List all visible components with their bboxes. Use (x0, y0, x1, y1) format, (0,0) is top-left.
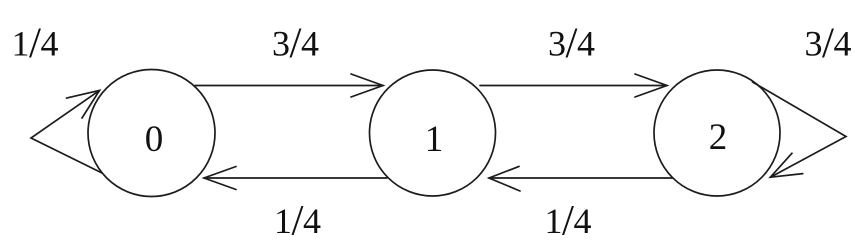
svg-text:1/4: 1/4 (274, 198, 321, 245)
svg-text:3/4: 3/4 (805, 20, 852, 67)
arrowhead 1 to 2 (635, 74, 667, 97)
arrowhead 1 to 0 (204, 167, 236, 190)
state 2 circle (654, 70, 780, 196)
wire: arrow 1 to 2 (top) (480, 85, 667, 87)
svg-text:3/4: 3/4 (548, 20, 595, 67)
svg-text:0: 0 (145, 119, 164, 160)
svg-text:2: 2 (709, 117, 728, 158)
arrowhead 0 to 1 (351, 74, 383, 97)
arrowhead of self-loop 0 (67, 90, 100, 118)
svg-text:1/4: 1/4 (12, 20, 59, 67)
svg-text:1/4: 1/4 (545, 198, 592, 245)
state 1 circle (370, 70, 496, 196)
state 0 circle (88, 70, 215, 197)
svg-text:1: 1 (425, 119, 444, 160)
self-loop on state 2 (triangle, probability 3/4) (753, 82, 847, 177)
wire: arrow 0 to 1 (top) (195, 85, 383, 87)
arrowhead 2 to 1 (489, 166, 520, 191)
wire: arrow 1 to 0 (bottom) (204, 177, 387, 179)
self-loop on state 0 (triangle, probability 1/4) (31, 90, 102, 173)
arrowhead of self-loop 2 (770, 153, 802, 177)
svg-text:3/4: 3/4 (272, 20, 319, 67)
wire: arrow 2 to 1 (bottom) (489, 177, 673, 179)
